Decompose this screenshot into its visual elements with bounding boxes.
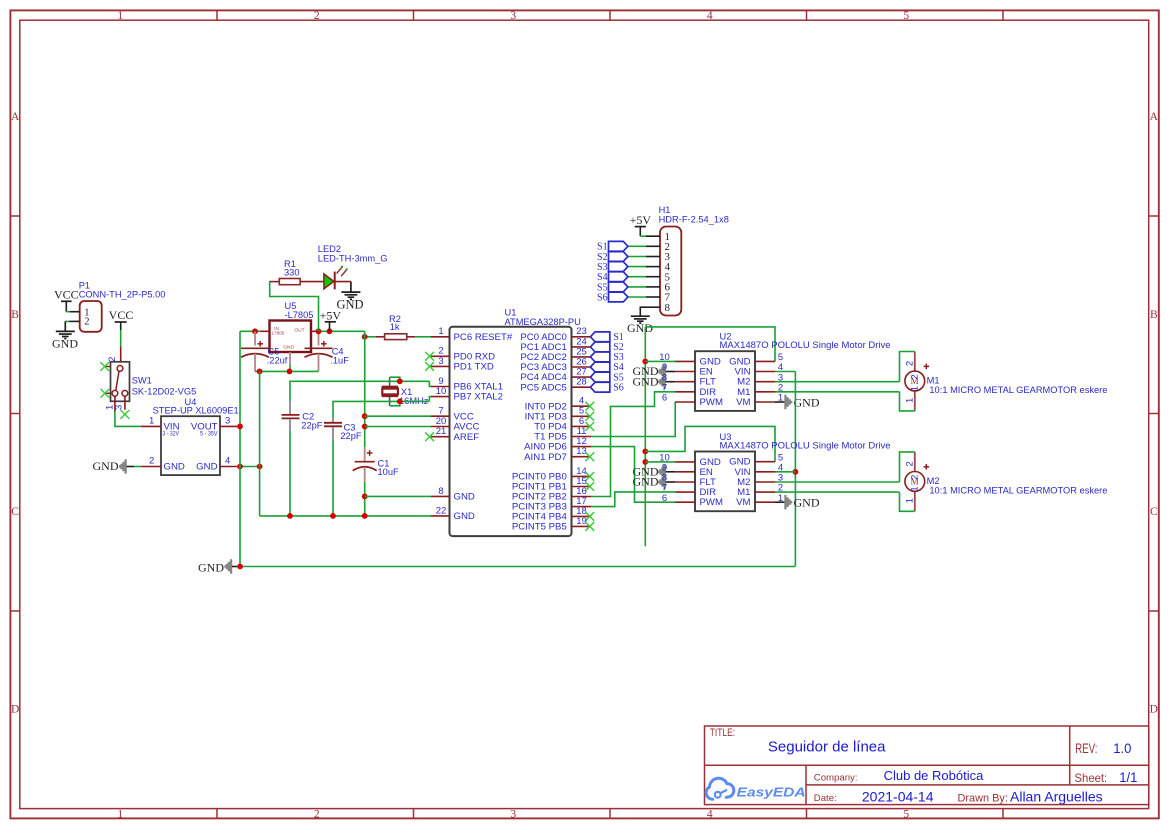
wire C5/C4 ground rail (255, 370, 319, 372)
H1 pin 5 (646, 271, 671, 283)
wire C2 to GND rail (289, 431, 291, 516)
power flag VCC at P1 (54, 287, 79, 311)
svg-text:5: 5 (903, 10, 909, 22)
svg-text:GND: GND (164, 462, 185, 473)
ground GND at U2 pin 8 (633, 374, 676, 389)
U5 pin OUT (311, 330, 319, 332)
U1 pin 6 T0 PD4 (534, 416, 591, 433)
U4 pin 4 GND (220, 456, 241, 467)
svg-text:4: 4 (707, 808, 713, 820)
junction (642, 359, 648, 365)
svg-text:1: 1 (117, 10, 123, 22)
U4 pin 3 VOUT (220, 416, 241, 427)
svg-text:A: A (1150, 111, 1159, 123)
capacitor C4 .1uF (305, 331, 350, 371)
SW1 pin 2 lead (107, 346, 121, 362)
H1 pin 7 (646, 292, 671, 304)
U1 pin 21 AREF (431, 426, 479, 443)
U3 pin 6 PWM (662, 493, 723, 508)
wire crystal top rail to C2 and pin9 (290, 381, 429, 401)
junction (642, 449, 648, 455)
U1 pin 12 AIN0 PD6 (524, 436, 591, 453)
wire R2 to U1 pin 1 (415, 336, 431, 338)
switch SW1 SK-12D02-VG5 (111, 362, 197, 402)
motor M1 10:1 MICRO METAL GEARMOTOR (905, 352, 925, 411)
svg-text:6: 6 (662, 393, 667, 404)
svg-text:M2: M2 (927, 476, 940, 486)
svg-text:Drawn By:: Drawn By: (958, 793, 1008, 805)
U1 pin 19 PCINT5 PB5 (512, 516, 591, 533)
wire U4 pin4 to GND rail (241, 466, 260, 468)
svg-text:C: C (1150, 506, 1158, 518)
junction (397, 399, 403, 405)
P1 pin 2 (70, 317, 90, 328)
U5 pin GND lead (289, 352, 291, 365)
resistor R1 330 (270, 259, 324, 285)
wire pin10 hook (429, 397, 431, 402)
frame row letters right (1150, 111, 1159, 715)
wire C1 to GND (364, 482, 366, 516)
junction (642, 459, 648, 465)
svg-text:GND: GND (198, 561, 224, 575)
wire bracket M2 pin1 (900, 492, 915, 511)
wire S4 to H1 pin 5 (628, 276, 646, 278)
svg-text:22: 22 (436, 505, 447, 516)
svg-text:3: 3 (510, 808, 516, 820)
wire C3 to GND rail (332, 440, 334, 516)
svg-text:GND: GND (52, 336, 78, 350)
svg-text:10:1 MICRO METAL GEARMOTOR esk: 10:1 MICRO METAL GEARMOTOR eskere (929, 486, 1107, 496)
capacitor C5 .22uf (241, 331, 288, 371)
U1 pin 10 PB7 XTAL2 (431, 386, 503, 403)
wire U2 M2 to motor M1 pin2 (775, 381, 900, 383)
power flag +5V at H1 (630, 213, 652, 236)
svg-text:GND: GND (633, 374, 659, 388)
ground GND at U2 VM (775, 395, 820, 410)
IC U3 MAX1487O POLOLU Single Motor Drive (695, 432, 891, 511)
svg-text:4: 4 (225, 456, 230, 467)
svg-text:5 - 35V: 5 - 35V (200, 430, 218, 437)
net flag S1 (597, 241, 628, 252)
ground GND at P1 (52, 321, 78, 350)
U2 pin 5 GND (729, 352, 783, 367)
junction (237, 564, 243, 570)
net flag S3 (597, 262, 628, 273)
svg-text:GND: GND (93, 459, 119, 473)
svg-text:6: 6 (662, 493, 667, 504)
svg-text:22pF: 22pF (340, 431, 362, 441)
wire R1 to +5V net (270, 282, 319, 332)
wire U4 pin2 to ground (134, 466, 141, 468)
U1 pin 22 GND (431, 505, 475, 522)
wire PCINT3 PB3 to U3 DIR (591, 492, 675, 507)
junction (287, 513, 293, 519)
wire bracket M2 pin2 (900, 452, 915, 482)
svg-text:PWM: PWM (700, 397, 723, 408)
svg-text:1: 1 (909, 486, 920, 491)
svg-text:10:1 MICRO METAL GEARMOTOR esk: 10:1 MICRO METAL GEARMOTOR eskere (929, 385, 1107, 395)
svg-text:GND: GND (196, 462, 217, 473)
frame column numbers top (117, 10, 909, 22)
net flag S6 (590, 382, 623, 393)
svg-text:1: 1 (438, 326, 443, 337)
wire bracket M1 pin2 (900, 352, 915, 382)
H1 pin 8 (646, 302, 671, 314)
wire GND trunk vertical (644, 327, 646, 546)
U1 pin 28 PC5 ADC5 (520, 377, 591, 394)
junction at C5 (252, 328, 258, 334)
no-connect X (425, 362, 434, 371)
svg-text:VM: VM (736, 497, 750, 508)
junction (257, 369, 263, 375)
power flag +5V at U5 (320, 308, 342, 331)
IC U2 MAX1487O POLOLU Single Motor Drive (695, 332, 891, 411)
svg-text:CONN-TH_2P-P5.00: CONN-TH_2P-P5.00 (79, 290, 166, 300)
wire +5V to R2 (365, 336, 376, 338)
U1 pin 14 PCINT0 PB0 (512, 466, 591, 483)
junction (316, 328, 322, 334)
wire U3 M2 to motor M2 pin2 (775, 481, 900, 483)
wire U5 OUT to +5V net (319, 330, 365, 332)
crystal X1 16MHz (382, 377, 429, 406)
wire U5 GND to rail (289, 365, 291, 372)
svg-text:3 - 32V: 3 - 32V (163, 430, 180, 437)
svg-text:D: D (1150, 704, 1158, 716)
svg-text:STEP-UP XL6009E1: STEP-UP XL6009E1 (153, 406, 239, 416)
wire GND bottom rail to pin22 (260, 515, 431, 517)
net flag S2 (590, 342, 623, 353)
svg-text:8: 8 (438, 486, 443, 497)
U2 pin 7 DIR (662, 382, 716, 397)
ground GND at LED2 (336, 282, 363, 312)
svg-text:A: A (11, 111, 20, 123)
M1 plus mark (924, 364, 930, 370)
svg-text:PWM: PWM (700, 497, 723, 508)
svg-text:PC5 ADC5: PC5 ADC5 (520, 382, 566, 393)
svg-text:5: 5 (903, 808, 909, 820)
SW1 unused left pin lower (105, 392, 110, 394)
wire P1 pin1 to VCC (66, 311, 70, 313)
svg-text:1: 1 (909, 386, 920, 391)
wire S5 to H1 pin 6 (628, 286, 646, 288)
ground GND at U2 pin 9 (633, 364, 676, 378)
no-connect X (585, 452, 594, 461)
wire U3 M1 to motor M2 pin1 (775, 491, 900, 493)
no-connect X (585, 412, 594, 421)
capacitor C2 22pF (282, 402, 323, 431)
ground GND at bottom rail (198, 559, 237, 574)
connector H1 HDR-F-2.54_1x8 (659, 205, 729, 316)
U2 pin 2 M1 (737, 382, 783, 397)
H1 pin 4 (646, 261, 671, 273)
SW1 unused left pin upper (105, 366, 110, 368)
U1 pin 16 PCINT2 PB2 (512, 486, 591, 503)
svg-text:D: D (11, 704, 19, 716)
svg-text:EasyEDA: EasyEDA (737, 785, 806, 800)
svg-text:22pF: 22pF (301, 420, 323, 430)
svg-text:C: C (11, 506, 19, 518)
U2 pin 3 M2 (737, 372, 783, 387)
U3 pin 7 DIR (662, 483, 716, 498)
svg-text:2: 2 (905, 361, 916, 366)
net flag S5 (590, 372, 623, 383)
U3 pin 1 VM (736, 493, 783, 508)
U3 pin 5 GND (729, 452, 783, 467)
svg-text:ATMEGA328P-PU: ATMEGA328P-PU (505, 317, 581, 327)
net flag S4 (590, 362, 623, 373)
svg-text:REV:: REV: (1075, 741, 1097, 756)
svg-text:.22uf: .22uf (267, 356, 288, 366)
U1 pin 20 AVCC (431, 416, 480, 433)
svg-text:GND: GND (454, 492, 475, 503)
U1 pin 13 AIN1 PD7 (524, 446, 591, 463)
wire P1 pin2 to GND (65, 320, 69, 322)
wire VIN vertical rail (794, 372, 796, 567)
U3 pin 10 GND (659, 453, 721, 468)
ground GND at U4 pin 2 (93, 459, 135, 474)
power flag VCC at SW1 (109, 308, 134, 330)
net flag S4 (597, 272, 628, 283)
junction (362, 334, 368, 340)
svg-text:1.0: 1.0 (1113, 741, 1131, 756)
U1 pin 17 PCINT3 PB3 (512, 496, 591, 513)
wire trunk to U3 pin10 (645, 461, 675, 463)
junction (287, 369, 293, 375)
junction (327, 328, 333, 334)
junction (362, 494, 368, 500)
svg-text:1: 1 (149, 416, 154, 427)
svg-text:B: B (11, 309, 19, 321)
wire S6 to H1 pin 7 (628, 296, 646, 298)
U1 pin 2 PD0 RXD (431, 346, 495, 363)
ground GND at U3 VM (775, 495, 820, 510)
svg-text:SK-12D02-VG5: SK-12D02-VG5 (132, 386, 197, 396)
svg-text:1k: 1k (390, 322, 400, 332)
svg-text:LED2: LED2 (318, 244, 341, 254)
U1 pin 3 PD1 TXD (431, 356, 494, 373)
svg-text:VCC: VCC (109, 308, 134, 322)
svg-text:-L7805: -L7805 (285, 310, 314, 320)
SW1 pin 1 lead (105, 396, 116, 411)
wire +5V to H1 pin1 (640, 235, 646, 237)
svg-text:PCINT5 PB5: PCINT5 PB5 (512, 522, 567, 533)
svg-text:Allan Arguelles: Allan Arguelles (1010, 789, 1103, 805)
junction (330, 513, 336, 519)
P1 pin 1 (70, 308, 90, 319)
net flag S3 (590, 352, 623, 363)
ground GND at U3 pin 8 (633, 475, 676, 489)
svg-text:PD1 TXD: PD1 TXD (454, 362, 494, 373)
wire AIN0 PD6 to U3 PWM (591, 447, 675, 503)
svg-text:MAX1487O POLOLU Single Motor D: MAX1487O POLOLU Single Motor Drive (720, 440, 891, 451)
H1 pin 2 (646, 241, 670, 253)
wire S3 to H1 pin 4 (628, 266, 646, 268)
svg-text:1/1: 1/1 (1119, 770, 1137, 785)
wire H1 pin8 to ground (640, 307, 646, 316)
svg-text:HDR-F-2.54_1x8: HDR-F-2.54_1x8 (659, 215, 729, 225)
no-connect X (585, 522, 594, 531)
wire U2 VIN to VIN rail (775, 371, 795, 373)
U4 pin 2 GND (141, 456, 161, 467)
wire pin9 hook (429, 381, 431, 386)
IC U1 ATMEGA328P-PU (450, 307, 581, 536)
svg-text:AIN1 PD7: AIN1 PD7 (524, 452, 567, 463)
svg-text:2: 2 (84, 317, 89, 328)
frame row letters left (11, 111, 20, 715)
M2 plus mark (924, 464, 930, 470)
wire bracket M1 pin1 (900, 392, 915, 411)
wire +5V vertical rail (364, 331, 366, 447)
U4 pin 1 VIN (141, 416, 161, 427)
svg-text:VM: VM (736, 397, 750, 408)
svg-text:10: 10 (436, 386, 447, 397)
wire LED2 cathode to ground (335, 281, 351, 283)
svg-text:+5V: +5V (630, 213, 652, 227)
svg-text:LED-TH-3mm_G: LED-TH-3mm_G (318, 253, 388, 263)
U1 pin 15 PCINT1 PB1 (512, 476, 591, 493)
regulator U4 STEP-UP XL6009E1 (153, 397, 239, 475)
wire S1 to H1 pin 2 (628, 245, 646, 247)
svg-text:VCC: VCC (54, 287, 79, 301)
svg-text:Seguidor de línea: Seguidor de línea (768, 739, 886, 756)
EasyEDA logo (706, 778, 805, 799)
no-connect X (425, 352, 434, 361)
svg-text:2: 2 (314, 808, 320, 820)
svg-text:GND: GND (336, 297, 363, 311)
svg-text:21: 21 (436, 426, 447, 437)
junction (257, 464, 263, 470)
svg-text:2: 2 (909, 374, 920, 379)
svg-text:Club de Robótica: Club de Robótica (884, 768, 984, 783)
U1 pin 25 PC2 ADC2 (520, 346, 591, 363)
motor M2 10:1 MICRO METAL GEARMOTOR (905, 452, 925, 511)
svg-text:4: 4 (707, 10, 713, 22)
svg-text:2: 2 (314, 10, 320, 22)
svg-text:GND: GND (283, 345, 294, 351)
U2 pin 10 GND (659, 352, 721, 367)
wire trunk to U3 pin5 (645, 426, 775, 461)
svg-text:1: 1 (905, 398, 916, 403)
U2 pin 1 VM (736, 393, 783, 408)
wire GND pin8 (365, 495, 431, 497)
U3 pin 4 VIN (735, 462, 784, 477)
wire crystal bottom hook (390, 401, 400, 405)
U1 pin 23 PC0 ADC0 (520, 326, 591, 343)
junction (793, 469, 799, 475)
svg-text:19: 19 (576, 516, 587, 527)
svg-text:B: B (1150, 309, 1158, 321)
U2 pin 6 PWM (662, 393, 723, 408)
U1 pin 18 PCINT4 PB4 (512, 506, 591, 523)
svg-text:GND: GND (794, 496, 820, 510)
svg-text:M1: M1 (927, 376, 940, 386)
U5 pin IN (260, 330, 270, 332)
wire GND vertical C5-rail to bottom rail (259, 371, 261, 516)
svg-text:1: 1 (117, 808, 123, 820)
ground GND at H1 (627, 316, 653, 335)
junction at U4 VOUT (237, 424, 243, 430)
U1 pin 27 PC4 ADC4 (520, 367, 591, 384)
svg-text:13: 13 (576, 446, 587, 457)
net flag S1 (590, 332, 623, 343)
no-connect X (585, 512, 594, 521)
SW1 pin 3 lead (114, 396, 125, 410)
wire S2 to H1 pin 3 (628, 256, 646, 258)
no-connect X (585, 422, 594, 431)
svg-text:L7805: L7805 (272, 331, 285, 336)
svg-text:3: 3 (114, 405, 125, 410)
wire bottom GND/VIN rail (240, 566, 795, 568)
wire U3 VIN junction (775, 471, 795, 473)
U1 pin 26 PC3 ADC3 (520, 356, 591, 373)
wire trunk to U5 IN (240, 330, 260, 332)
capacitor C3 22pF (324, 418, 362, 442)
wire GND trunk horizontal to U2 pin5 (645, 327, 775, 362)
U3 pin 9 EN (662, 462, 713, 477)
wire trunk to U2 pin10 (645, 360, 675, 362)
junction (362, 413, 368, 419)
U1 pin 8 GND (431, 486, 475, 503)
U1 pin 5 INT1 PD3 (525, 406, 591, 423)
wire PCINT2 PB2 to U2 DIR (591, 392, 675, 497)
no-connect X at SW1 pin 3 (121, 410, 130, 419)
U1 pin 1 PC6 RESET# (431, 326, 513, 343)
resistor R2 1k (376, 314, 415, 339)
svg-text:GND: GND (454, 511, 475, 522)
svg-text:1: 1 (905, 498, 916, 503)
wire U2 M1 to motor M1 pin1 (775, 391, 900, 393)
wire T1 PD5 to U2 PWM (591, 402, 675, 437)
U1 pin 9 PB6 XTAL1 (431, 376, 503, 393)
LED LED2 LED-TH-3mm_G (318, 244, 388, 289)
svg-text:AREF: AREF (454, 432, 480, 443)
U1 pin 7 VCC (431, 406, 474, 423)
svg-text:3: 3 (225, 416, 230, 427)
svg-text:8: 8 (665, 302, 671, 314)
svg-text:10uF: 10uF (378, 467, 400, 477)
svg-text:Company:: Company: (814, 773, 858, 784)
svg-text:Sheet:: Sheet: (1075, 771, 1108, 785)
svg-text:3: 3 (438, 356, 443, 367)
svg-text:PB7 XTAL2: PB7 XTAL2 (454, 392, 503, 403)
svg-text:MAX1487O POLOLU Single Motor D: MAX1487O POLOLU Single Motor Drive (720, 340, 891, 351)
wire VCC pin7 (365, 415, 431, 417)
net flag S6 (597, 292, 628, 303)
no-connect X (585, 472, 594, 481)
svg-text:2: 2 (149, 456, 154, 467)
H1 pin 1 (646, 231, 670, 243)
U3 pin 2 M1 (737, 483, 783, 498)
svg-text:3: 3 (510, 10, 516, 22)
U1 pin 4 INT0 PD2 (525, 396, 591, 413)
no-connect X (585, 402, 594, 411)
wire AVCC pin20 (365, 426, 431, 428)
capacitor C1 10uF (353, 447, 399, 482)
junction (397, 378, 403, 384)
svg-text:H1: H1 (659, 205, 671, 215)
svg-text:GND: GND (794, 395, 820, 409)
U1 pin 24 PC1 ADC1 (520, 336, 591, 353)
wire left vertical trunk VOUT/U5-IN/GND (239, 331, 241, 566)
title block (705, 726, 1149, 805)
no-connect X (101, 389, 110, 398)
regulator U5 -L7805 (270, 301, 314, 352)
junction (237, 464, 243, 470)
svg-text:2: 2 (909, 475, 920, 480)
U3 pin 8 FLT (662, 473, 716, 488)
svg-text:S6: S6 (613, 382, 624, 393)
connector P1 CONN-TH_2P-P5.00 (79, 281, 166, 332)
